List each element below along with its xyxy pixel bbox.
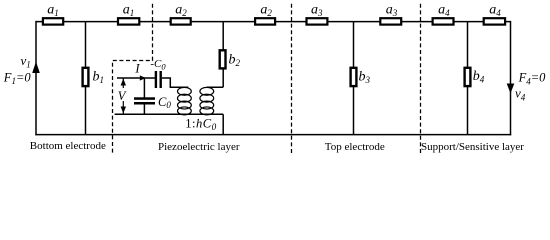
voltage arrow V shaft xyxy=(122,78,124,114)
impedance b1 xyxy=(83,68,89,86)
impedance a2 (first) xyxy=(171,18,191,24)
impedance a4 (first) xyxy=(433,18,454,24)
svg-text:Support/Sensitive layer: Support/Sensitive layer xyxy=(421,141,524,153)
shunt branch wire b2 upper xyxy=(222,22,224,88)
shunt capacitor C0 wire lower xyxy=(143,105,145,115)
capacitor -C0 plates xyxy=(155,71,157,88)
impedance b3 xyxy=(351,68,357,86)
shunt branch wire b3 xyxy=(353,22,355,135)
impedance a2 (second) xyxy=(255,18,275,24)
capacitor C0 plates xyxy=(134,97,155,100)
dashed boundary top-electrode / support layer xyxy=(420,4,422,155)
svg-text:F4=0: F4=0 xyxy=(518,71,547,87)
dashed boundary piezoelectric / top-electrode xyxy=(291,4,293,155)
wire -C0 to transformer primary xyxy=(162,78,188,87)
label V xyxy=(118,88,129,101)
shunt branch wire b1 xyxy=(85,22,87,135)
shunt capacitor C0 wire upper xyxy=(143,78,145,98)
voltage arrow V heads xyxy=(121,79,126,86)
current arrow I xyxy=(140,75,146,80)
dashed boundary bottom-electrode / piezoelectric (jogged) xyxy=(113,4,153,155)
impedance a3 (first) xyxy=(307,18,328,24)
local bottom rail of electrical port xyxy=(115,113,224,115)
bottom rail wire xyxy=(35,134,511,136)
left port wire xyxy=(35,21,37,135)
svg-text:V: V xyxy=(118,89,127,103)
svg-text:F1=0: F1=0 xyxy=(3,71,32,87)
wire secondary top stub to b2 xyxy=(207,86,223,88)
impedance a1 (first) xyxy=(43,18,63,24)
impedance a3 (second) xyxy=(380,18,401,24)
electrical port top wire xyxy=(117,77,155,79)
top rail wire xyxy=(36,21,511,23)
svg-text:Piezoelectric layer: Piezoelectric layer xyxy=(158,141,240,153)
shunt branch wire b4 xyxy=(467,22,469,135)
velocity arrow v4 xyxy=(507,84,515,94)
impedance a1 (second) xyxy=(118,18,139,24)
impedance b4 xyxy=(465,68,471,86)
right port wire xyxy=(510,21,512,135)
svg-text:Bottom electrode: Bottom electrode xyxy=(30,140,106,152)
svg-text:Top electrode: Top electrode xyxy=(325,141,385,153)
wire local rail to bottom rail xyxy=(222,114,224,134)
svg-text:I: I xyxy=(134,61,140,75)
impedance a4 (second) xyxy=(484,18,505,24)
impedance b2 xyxy=(220,50,226,68)
transformer secondary coil xyxy=(200,87,214,115)
transformer primary coil xyxy=(178,87,192,115)
velocity arrow v1 xyxy=(32,62,40,74)
